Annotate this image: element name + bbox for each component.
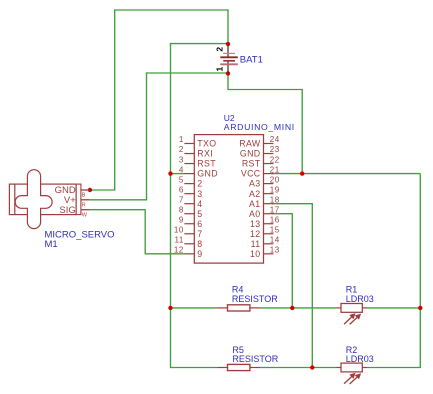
- svg-text:9: 9: [197, 249, 202, 259]
- LDR R2 lead left: [337, 367, 342, 369]
- battery BAT1: [220, 46, 238, 73]
- wire VCC net: U2 pin 21 run y=173.6: [272, 173, 420, 175]
- svg-text:9: 9: [179, 215, 184, 224]
- svg-text:13: 13: [250, 219, 261, 229]
- resistor R5 lead right: [250, 367, 261, 369]
- svg-text:M1: M1: [45, 239, 58, 250]
- svg-text:RESISTOR: RESISTOR: [232, 354, 278, 364]
- LDR R2 light arrow 1: [344, 373, 356, 384]
- wire SIG net: to U2 pin 12: [145, 253, 185, 255]
- svg-text:19: 19: [270, 185, 280, 194]
- U2 left pin 2 lead: [184, 153, 194, 155]
- servo M1 flange line: [14, 184, 16, 215]
- svg-text:SIG: SIG: [59, 205, 75, 216]
- wire GND net: long riser x=170.5: [170, 44, 172, 368]
- wire R5 row: R2 to right riser: [367, 367, 421, 369]
- svg-text:5: 5: [179, 175, 184, 184]
- svg-text:A1: A1: [249, 199, 260, 209]
- svg-text:1: 1: [214, 67, 224, 72]
- resistor R4 body: [228, 305, 250, 311]
- wire R4 row: R1 to right riser: [367, 307, 420, 309]
- svg-text:10: 10: [174, 225, 184, 234]
- svg-text:R: R: [82, 203, 86, 209]
- U2 right pin 17 lead: [264, 213, 274, 215]
- U2 right pin 18 lead: [264, 203, 274, 205]
- wire V+ net: to servo V+: [90, 199, 147, 201]
- wire V+ net: battery pin 1 left run y=73: [146, 72, 228, 74]
- wire A0 net: U2 pin 17 right run: [272, 213, 292, 215]
- svg-text:20: 20: [270, 175, 280, 184]
- svg-text:4: 4: [179, 165, 184, 174]
- svg-text:GND: GND: [240, 149, 261, 159]
- svg-text:8: 8: [179, 205, 184, 214]
- wire A1 net: U2 pin 18 right run: [272, 203, 312, 205]
- svg-text:A2: A2: [249, 189, 260, 199]
- servo M1 horn cross: [15, 170, 52, 229]
- wire VCC net: drop to U2 pin 21: [301, 89, 303, 174]
- U2 right pin 13 lead: [264, 253, 274, 255]
- U2 right pin 21 lead: [264, 173, 274, 175]
- svg-text:GND: GND: [197, 169, 218, 179]
- wire VCC net: right riser x=420.3: [419, 174, 421, 368]
- svg-text:RST: RST: [242, 159, 261, 169]
- junction battery pin 2: [226, 42, 230, 46]
- svg-text:BAT1: BAT1: [240, 55, 263, 66]
- servo M1 pin SIG lead: [81, 209, 90, 211]
- servo M1 connector box: [76, 184, 81, 215]
- svg-text:A0: A0: [249, 209, 260, 219]
- U2 left pin 9 lead: [184, 223, 194, 225]
- wire GND net: drop to battery pin 2: [227, 9, 229, 44]
- wire SIG net: servo SIG right run: [90, 209, 145, 211]
- LDR R2 light arrow 2: [350, 373, 362, 384]
- wire A1 net: drop x=312.3 to R5 row: [311, 203, 313, 367]
- svg-text:12: 12: [174, 246, 184, 255]
- wire VCC net: run y=89.5: [227, 89, 302, 91]
- wire R4 row: left segment: [171, 307, 217, 309]
- U2 left pin 1 lead: [184, 143, 194, 145]
- wire GND net: left riser x=114.7: [114, 9, 116, 190]
- junction A0 / R4 row: [290, 306, 294, 310]
- U2 right pin 15 lead: [264, 233, 274, 235]
- resistor R4 lead left: [216, 307, 227, 309]
- svg-text:TXO: TXO: [197, 139, 216, 149]
- svg-text:7: 7: [197, 229, 202, 239]
- svg-text:15: 15: [270, 225, 280, 234]
- LDR R1 lead left: [337, 307, 342, 309]
- U2 left pin 6 lead: [184, 193, 194, 195]
- svg-text:4: 4: [197, 199, 202, 209]
- svg-text:LDR03: LDR03: [346, 294, 374, 304]
- junction R4 row right: [418, 306, 422, 310]
- U2 left pin 4 lead: [184, 173, 194, 175]
- svg-text:A3: A3: [249, 179, 260, 189]
- U2 right pin 24 lead: [264, 143, 274, 145]
- svg-text:14: 14: [270, 236, 280, 245]
- LDR R2 lead right: [362, 367, 367, 369]
- svg-text:24: 24: [270, 135, 280, 144]
- wire GND net: servo GND to top-left riser: [90, 189, 115, 191]
- svg-text:6: 6: [197, 219, 202, 229]
- LDR R1 light arrow 2: [350, 314, 362, 325]
- U2 left pin 10 lead: [184, 233, 194, 235]
- U2 right pin 19 lead: [264, 193, 274, 195]
- junction R4 left: [168, 306, 172, 310]
- servo M1 body: [9, 184, 76, 215]
- U2 right pin 20 lead: [264, 183, 274, 185]
- svg-text:VCC: VCC: [241, 169, 261, 179]
- wire A0 net: drop x=292.3 to R4 row: [291, 213, 293, 308]
- svg-text:RXI: RXI: [197, 149, 213, 159]
- U2 left pin 11 lead: [184, 243, 194, 245]
- U2 left pin 12 lead: [184, 253, 194, 255]
- wire R5 row: left segment: [170, 367, 218, 369]
- svg-text:2: 2: [197, 179, 202, 189]
- svg-text:5: 5: [197, 209, 202, 219]
- U2 right pin 14 lead: [264, 243, 274, 245]
- svg-text:B: B: [82, 193, 86, 199]
- svg-text:1: 1: [179, 135, 184, 144]
- svg-text:W: W: [82, 212, 88, 218]
- svg-text:3: 3: [179, 155, 184, 164]
- junction battery pin 1: [226, 71, 230, 75]
- servo M1 pin GND lead: [81, 189, 90, 191]
- svg-text:RAW: RAW: [239, 139, 261, 149]
- LDR R1 light arrow 1: [344, 313, 356, 324]
- svg-text:10: 10: [250, 249, 261, 259]
- svg-text:2: 2: [179, 145, 184, 154]
- wire SIG net: drop x=145.2: [144, 209, 146, 254]
- svg-text:RESISTOR: RESISTOR: [232, 294, 278, 304]
- U2 left pin 7 lead: [184, 203, 194, 205]
- wire GND net: stub to U2 pin 4: [171, 173, 185, 175]
- svg-text:12: 12: [250, 229, 261, 239]
- U2 left pin 3 lead: [184, 163, 194, 165]
- svg-text:17: 17: [270, 205, 280, 214]
- LDR R2 body: [341, 363, 362, 372]
- junction U2 VCC pin 21: [300, 171, 304, 175]
- svg-text:6: 6: [179, 185, 184, 194]
- svg-text:16: 16: [270, 215, 280, 224]
- svg-text:11: 11: [174, 236, 183, 245]
- junction A1 / R5 row: [310, 365, 314, 369]
- svg-text:7: 7: [179, 195, 184, 204]
- U2 right pin 16 lead: [264, 223, 274, 225]
- svg-text:13: 13: [270, 246, 280, 255]
- svg-text:21: 21: [270, 165, 280, 174]
- LDR R1 lead right: [362, 307, 367, 309]
- U2 right pin 22 lead: [264, 163, 274, 165]
- wire R5 row: R5 to R2 segment: [261, 367, 337, 369]
- wire GND net: battery pin 2 to mid riser: [170, 43, 228, 45]
- wire R4 row: R4 to R1 segment: [261, 307, 337, 309]
- wire V+ net: riser x=146.5: [146, 72, 148, 199]
- svg-text:LDR03: LDR03: [346, 354, 374, 364]
- LDR R1 body: [341, 304, 362, 313]
- svg-text:2: 2: [214, 47, 224, 52]
- U2 left pin 5 lead: [184, 183, 194, 185]
- servo M1 pin V+ lead: [81, 199, 90, 201]
- resistor R5 lead left: [217, 367, 227, 369]
- resistor R4 lead right: [250, 307, 261, 309]
- junction U2 GND pin 4: [168, 171, 172, 175]
- svg-text:22: 22: [270, 155, 280, 164]
- wire VCC net: battery pin 1 down: [227, 74, 229, 90]
- svg-text:3: 3: [197, 189, 202, 199]
- svg-text:11: 11: [251, 239, 261, 249]
- junction servo GND pin: [88, 188, 92, 192]
- resistor R5 body: [228, 364, 250, 370]
- svg-text:ARDUINO_MINI: ARDUINO_MINI: [224, 122, 295, 132]
- svg-text:23: 23: [270, 145, 280, 154]
- wire GND net: top run y=10: [114, 9, 229, 11]
- U2 right pin 23 lead: [264, 153, 274, 155]
- IC U2 ARDUINO_MINI box: [194, 135, 263, 264]
- svg-text:18: 18: [270, 195, 280, 204]
- svg-text:8: 8: [197, 239, 202, 249]
- U2 left pin 8 lead: [184, 213, 194, 215]
- svg-text:RST: RST: [197, 159, 216, 169]
